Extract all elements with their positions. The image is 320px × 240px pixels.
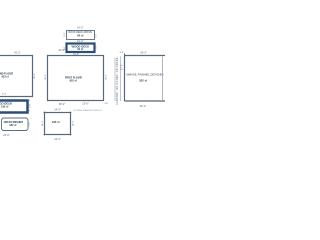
- svg-text:2'-8": 2'-8": [30, 104, 32, 108]
- svg-text:CARPORT, DETACHED, ON GRADE: CARPORT, DETACHED, ON GRADE: [116, 57, 119, 105]
- svg-text:14'-0": 14'-0": [42, 120, 44, 126]
- svg-text:64 sf: 64 sf: [77, 34, 83, 38]
- svg-text:182 sf: 182 sf: [9, 124, 16, 127]
- svg-text:28'-2": 28'-2": [59, 102, 66, 106]
- svg-text:14'-2": 14'-2": [54, 137, 61, 141]
- svg-text:3'-0": 3'-0": [95, 45, 97, 49]
- svg-text:W/ TRELLIS ABV NOT INCL HT: W/ TRELLIS ABV NOT INCL HT: [74, 109, 103, 112]
- svg-text:27'-0": 27'-0": [122, 64, 124, 70]
- svg-text:14'-0": 14'-0": [72, 120, 74, 126]
- svg-text:196 sf: 196 sf: [52, 120, 60, 124]
- svg-text:14'-2": 14'-2": [77, 26, 84, 30]
- svg-text:41'-2": 41'-2": [14, 51, 21, 55]
- svg-text:14'-2": 14'-2": [73, 54, 79, 56]
- svg-text:26'-2": 26'-2": [140, 104, 147, 108]
- svg-text:3'-0": 3'-0": [120, 52, 125, 54]
- svg-text:352 sf: 352 sf: [139, 79, 147, 83]
- svg-text:GARAGE, FINISHED, DETACHED: GARAGE, FINISHED, DETACHED: [126, 74, 164, 77]
- svg-text:6'-0": 6'-0": [95, 33, 97, 37]
- svg-text:30'-0": 30'-0": [45, 74, 47, 80]
- svg-text:30'-0": 30'-0": [106, 74, 108, 80]
- svg-text:5'-0": 5'-0": [29, 122, 31, 126]
- svg-text:24'-0": 24'-0": [3, 133, 10, 137]
- svg-text:952 sf: 952 sf: [2, 75, 9, 78]
- svg-text:30'-0": 30'-0": [34, 73, 36, 79]
- svg-text:192 sf: 192 sf: [1, 105, 8, 109]
- svg-text:26'-2": 26'-2": [140, 50, 147, 54]
- svg-text:952 sf: 952 sf: [70, 80, 77, 83]
- svg-text:6'-0": 6'-0": [64, 32, 66, 36]
- svg-text:3'-0": 3'-0": [64, 46, 66, 50]
- svg-text:ROOF DECK ABOVE: ROOF DECK ABOVE: [69, 31, 93, 34]
- svg-text:3'-0": 3'-0": [105, 103, 109, 105]
- svg-text:13'-0": 13'-0": [82, 101, 89, 105]
- svg-text:3'-0": 3'-0": [2, 93, 7, 95]
- svg-text:64 sf: 64 sf: [77, 47, 83, 51]
- svg-text:14'-2": 14'-2": [77, 39, 84, 43]
- svg-text:14'-2": 14'-2": [54, 108, 61, 112]
